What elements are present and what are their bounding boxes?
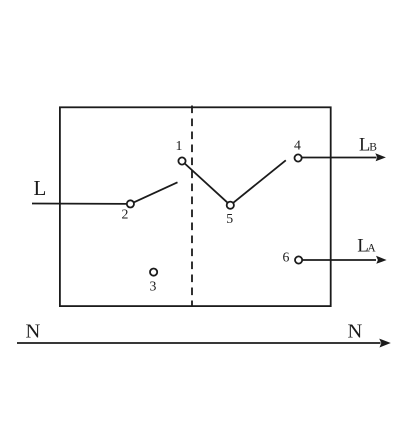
node terminal 5 [227,202,234,209]
arrowhead LB [375,153,386,161]
svg-text:1: 1 [176,138,183,153]
svg-text:3: 3 [149,278,156,293]
node terminal 4 [295,154,302,161]
svg-text:5: 5 [226,211,233,226]
node terminal 2 [127,200,134,207]
wire N line [17,342,381,344]
switch box enclosure [60,107,331,306]
wire switch blade from 5 [230,160,285,205]
wire L input [32,203,130,205]
dashed partition line [191,106,193,307]
svg-text:N: N [348,320,363,342]
svg-text:6: 6 [283,250,290,265]
svg-text:N: N [26,320,41,342]
wire 1 to 5 [182,161,230,205]
node terminal 3 [150,269,157,276]
node terminal 6 [295,256,302,263]
svg-text:2: 2 [122,207,129,222]
svg-text:B: B [369,142,377,154]
arrowhead N [379,339,391,348]
wire output LB [298,157,376,159]
svg-text:A: A [367,243,376,255]
arrowhead LA [376,256,387,264]
wire output LA [299,259,376,261]
svg-text:4: 4 [294,138,301,153]
svg-text:L: L [34,176,47,200]
node terminal 1 [178,157,185,164]
wire switch blade from 2 [130,182,177,204]
